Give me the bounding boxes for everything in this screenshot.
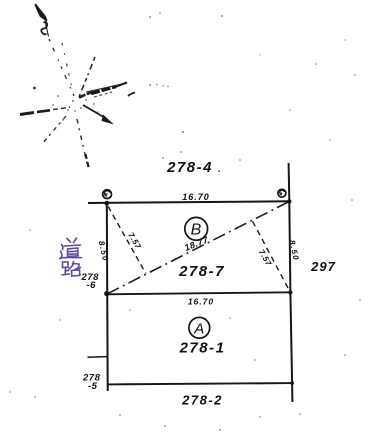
parcel bottom edge: [107, 383, 292, 384]
svg-text:16.70: 16.70: [182, 192, 210, 202]
circled A: [189, 317, 210, 338]
survey marker circle right: [278, 189, 286, 197]
svg-text:-5: -5: [88, 381, 98, 392]
star ray ESE arrow: [83, 105, 114, 125]
star ray W: [20, 107, 70, 114]
star center specks: [33, 87, 99, 121]
svg-text:278-2: 278-2: [181, 393, 223, 408]
svg-text:A: A: [193, 321, 204, 338]
star ray N: [62, 43, 73, 93]
parcel left edge: [106, 203, 109, 391]
label 278-5: [82, 373, 101, 393]
svg-text:278-7: 278-7: [178, 263, 225, 280]
svg-text:16.70: 16.70: [188, 297, 214, 307]
parcel top edge: [88, 201, 289, 203]
label 278-6: [81, 272, 100, 291]
parcel middle edge: [107, 292, 291, 294]
survey marker circle left: [103, 190, 112, 199]
svg-text:278-4: 278-4: [166, 159, 213, 176]
svg-text:-6: -6: [87, 280, 97, 291]
north arrow: [36, 5, 49, 37]
dashed line left (7.57): [108, 207, 146, 274]
star ray SW: [42, 116, 66, 144]
kanji 道 (road) purple handwriting: [60, 238, 82, 259]
dashed line right (7.57): [253, 221, 290, 291]
star ray ENE thick stroke: [79, 83, 135, 98]
svg-text:8.50: 8.50: [97, 240, 110, 263]
corner junction dots: [104, 199, 294, 385]
star ray S: [77, 119, 89, 169]
svg-text:7.57: 7.57: [126, 231, 143, 251]
svg-text:278-1: 278-1: [179, 340, 226, 357]
circled B: [185, 217, 208, 240]
north ray dashes (arrow to star center): [49, 39, 74, 96]
left boundary tick: [88, 356, 108, 359]
svg-text:297: 297: [310, 259, 336, 274]
svg-text:7.57: 7.57: [257, 248, 274, 268]
kanji 路 purple handwriting: [62, 262, 81, 277]
star ray NNE: [79, 57, 95, 97]
parcel right edge: [289, 163, 293, 402]
diagonal dash-dot line: [107, 202, 289, 294]
